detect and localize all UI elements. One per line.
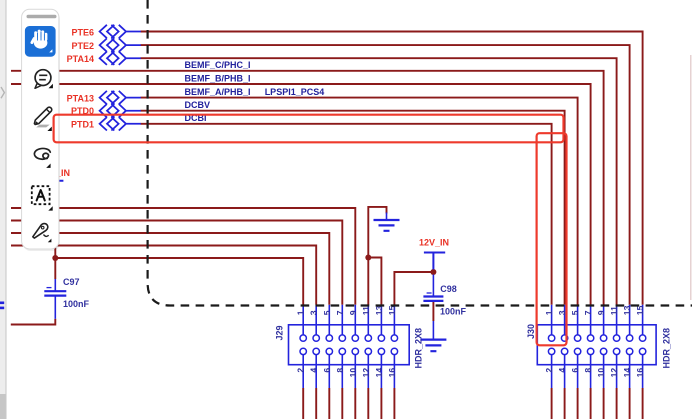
J29 pin 14	[374, 348, 385, 419]
svg-text:3: 3	[309, 310, 319, 315]
faint sheet border right	[690, 55, 692, 300]
wire BEMF_B/PHB_I net	[11, 84, 591, 305]
J30 pin 15	[635, 305, 646, 342]
wire node to J29 pin 1	[55, 258, 303, 305]
J29 pin 16	[387, 348, 398, 419]
tool: pencil	[34, 107, 51, 131]
J29 pin 12	[361, 348, 372, 419]
tool: pan hand (active)	[25, 26, 56, 57]
left panel strip	[0, 0, 6, 419]
svg-text:10: 10	[596, 368, 606, 378]
svg-text:9: 9	[348, 310, 358, 315]
J30 pin 12	[609, 348, 620, 419]
svg-text:2: 2	[296, 368, 306, 373]
capacitor C98	[423, 275, 443, 301]
svg-text:PTE2: PTE2	[71, 41, 94, 51]
wire node to J29 pin 13	[368, 258, 381, 305]
svg-text:6: 6	[570, 368, 580, 373]
junction node B (gnd branch)	[365, 255, 371, 261]
svg-text:9: 9	[596, 310, 606, 315]
tool: text box [A]	[32, 186, 53, 210]
svg-text:C98: C98	[440, 284, 457, 294]
tool: highlighter pen	[33, 224, 52, 243]
J30 pin 11	[609, 305, 620, 342]
J29 pin 13	[374, 305, 385, 342]
J29 pin 11	[361, 305, 372, 342]
connector J30 HDR_2X8	[537, 325, 656, 365]
wire to J29 pin 7	[11, 221, 342, 305]
svg-text:HDR_2X8: HDR_2X8	[662, 328, 672, 369]
svg-text:100nF: 100nF	[63, 299, 90, 309]
J29 pin 1	[296, 305, 307, 342]
J30 pin 7	[583, 305, 594, 342]
svg-text:11: 11	[609, 306, 619, 315]
svg-text:100nF: 100nF	[440, 306, 467, 316]
selection highlight rect (DCBI net row)	[54, 115, 564, 143]
annotation toolbar	[22, 9, 60, 251]
svg-text:15: 15	[387, 305, 397, 315]
svg-text:5: 5	[322, 310, 332, 315]
svg-text:4: 4	[309, 368, 319, 373]
J29 pin 8	[335, 348, 346, 419]
svg-text:14: 14	[622, 368, 632, 378]
off-page connector PTE6	[100, 25, 141, 38]
J30 pin 8	[583, 348, 594, 419]
wire 12V_IN to J29 pin 15	[394, 272, 433, 305]
off-page connector PTA14	[100, 52, 141, 65]
off-page connector PTE2	[100, 38, 141, 51]
svg-text:8: 8	[583, 368, 593, 373]
power symbol 5V_IN (behind toolbar)	[47, 181, 63, 186]
wire C97 bottom to left	[11, 319, 56, 325]
J29 pin 2	[296, 348, 307, 419]
wire 5V_IN stem to node	[54, 184, 56, 258]
svg-text:15: 15	[635, 305, 645, 315]
wire C97 top lead	[54, 258, 56, 279]
selection highlight rect (J30 pins 1-3 column)	[537, 133, 567, 345]
svg-text:4: 4	[557, 368, 567, 373]
svg-text:1: 1	[296, 310, 306, 315]
svg-text:1: 1	[544, 310, 554, 315]
svg-text:PTD1: PTD1	[71, 120, 94, 130]
J30 pin 13	[622, 305, 633, 342]
off-page connector PTD1	[100, 117, 141, 130]
J30 pin 10	[596, 348, 607, 419]
svg-text:7: 7	[583, 310, 593, 315]
svg-text:C97: C97	[63, 277, 80, 287]
J29 pin 15	[387, 305, 398, 342]
wire node to J29 pin 11	[367, 258, 369, 305]
wire DCBV PTD0 net	[141, 111, 565, 305]
svg-text:11: 11	[361, 306, 371, 315]
off-page connector PTA13	[100, 91, 141, 104]
svg-text:BEMF_A/PHB_I: BEMF_A/PHB_I	[185, 87, 251, 97]
wire PTA14 net	[141, 58, 617, 305]
wire BEMF_A/PHB_I PTA13 net	[141, 98, 578, 305]
svg-text:12V_IN: 12V_IN	[419, 237, 449, 247]
J29 pin 3	[309, 305, 320, 342]
J29 pin 6	[322, 348, 333, 419]
svg-text:PTE6: PTE6	[71, 28, 94, 38]
J30 pin 16	[635, 348, 646, 419]
svg-text:16: 16	[635, 368, 645, 378]
wire PTE6 net	[141, 32, 643, 305]
J30 pin 6	[570, 348, 581, 419]
svg-text:10: 10	[348, 368, 358, 378]
J30 pin 2	[544, 348, 555, 419]
junction node A (5V rail / C97)	[52, 255, 58, 261]
svg-text:7: 7	[335, 310, 345, 315]
drag handle	[27, 15, 57, 18]
svg-text:12: 12	[361, 368, 371, 378]
tool: lasso	[34, 148, 50, 167]
wire to J29 pin 3	[11, 246, 316, 305]
svg-text:J29: J29	[275, 325, 285, 340]
panel scrollbar thumb	[0, 394, 6, 419]
J29 pin 10	[348, 348, 359, 419]
off-page connector PTD0	[100, 104, 141, 117]
svg-text:BEMF_B/PHB_I: BEMF_B/PHB_I	[185, 73, 251, 83]
capacitor C97	[44, 279, 66, 319]
J30 pin 14	[622, 348, 633, 419]
svg-text:14: 14	[374, 368, 384, 378]
wire BEMF_C/PHC_I net	[11, 71, 604, 305]
svg-text:DCBV: DCBV	[185, 100, 211, 110]
wire to J29 pin 9	[11, 208, 355, 305]
tool: comment	[35, 70, 53, 89]
J30 pin 1	[544, 305, 555, 342]
panel collapse chevron	[1, 87, 4, 98]
wire PTE2 net	[141, 45, 630, 305]
svg-text:J30: J30	[526, 324, 536, 339]
svg-text:5: 5	[570, 310, 580, 315]
wire C98 bottom lead	[432, 301, 434, 321]
J29 pin 4	[309, 348, 320, 419]
svg-text:6: 6	[322, 368, 332, 373]
J30 pin 4	[557, 348, 568, 419]
wire DCBI PTD1 net	[141, 124, 552, 305]
J29 pin 5	[322, 305, 333, 342]
ground symbol (left of 12V)	[374, 213, 400, 231]
svg-text:8: 8	[335, 368, 345, 373]
J29 pin 9	[348, 305, 359, 342]
page boundary dashed line	[148, 0, 692, 306]
connector J29 HDR_2X8	[289, 325, 410, 365]
wire gnd branch up from node	[368, 207, 386, 258]
J30 pin 3	[557, 305, 568, 342]
wire to J29 pin 5	[11, 233, 329, 305]
svg-text:13: 13	[374, 305, 384, 315]
power symbol 12V_IN	[424, 253, 445, 270]
svg-text:BEMF_C/PHC_I: BEMF_C/PHC_I	[185, 60, 251, 70]
J30 pin 9	[596, 305, 607, 342]
svg-text:LPSPI1_PCS4: LPSPI1_PCS4	[265, 87, 325, 97]
svg-text:12: 12	[609, 368, 619, 378]
svg-text:16: 16	[387, 368, 397, 378]
junction node C (12V / C98)	[430, 269, 436, 275]
J29 pin 7	[335, 305, 346, 342]
clipped blue label fragment at left edge	[0, 302, 4, 305]
svg-text:HDR_2X8: HDR_2X8	[414, 328, 424, 369]
svg-text:PTA13: PTA13	[67, 94, 94, 104]
svg-text:13: 13	[622, 305, 632, 315]
J30 pin 5	[570, 305, 581, 342]
svg-text:PTA14: PTA14	[67, 54, 94, 64]
svg-text:2: 2	[544, 368, 554, 373]
ground symbol (below C98)	[420, 321, 446, 351]
